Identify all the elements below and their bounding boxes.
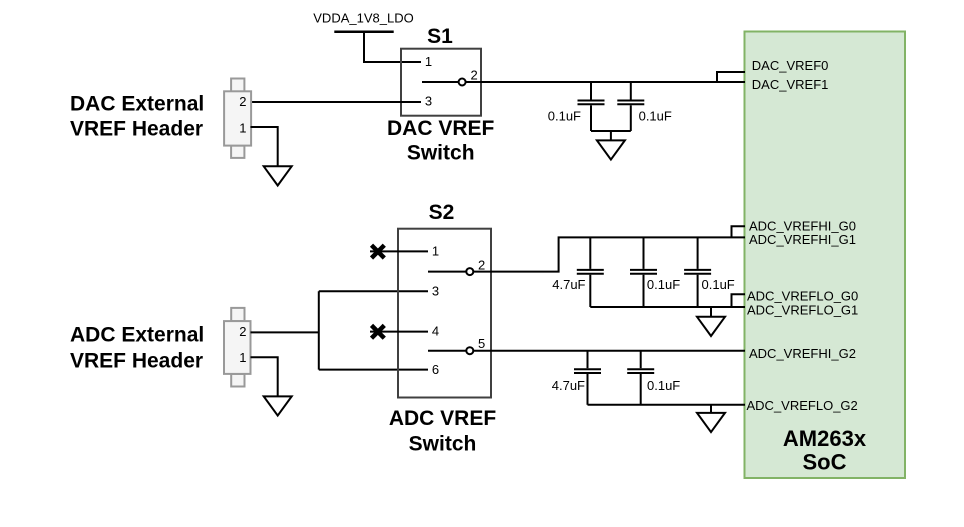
svg-text:1: 1 xyxy=(239,350,246,365)
value label C7 0.1uF xyxy=(647,378,680,393)
ground (C1 C2) xyxy=(597,140,625,159)
net label VDDA_1V8_LDO xyxy=(313,10,413,25)
svg-text:4.7uF: 4.7uF xyxy=(552,277,585,292)
svg-text:Switch: Switch xyxy=(407,142,475,165)
label S2 xyxy=(429,201,455,224)
svg-text:VREF Header: VREF Header xyxy=(70,349,203,372)
svg-text:0.1uF: 0.1uF xyxy=(548,109,581,124)
SoC block AM263x xyxy=(745,32,906,479)
svg-text:Switch: Switch xyxy=(409,432,477,455)
wire ADC_VREFLO rail xyxy=(590,306,745,308)
svg-text:1: 1 xyxy=(239,121,246,136)
svg-text:2: 2 xyxy=(239,94,246,109)
capacitor C7 0.1uF xyxy=(627,351,654,405)
capacitor C4 0.1uF xyxy=(630,237,657,307)
svg-text:2: 2 xyxy=(478,257,485,272)
S2 pin 5 number xyxy=(478,336,485,351)
ground (ADC header) xyxy=(264,396,292,415)
label ADC VREF Switch xyxy=(389,407,497,455)
svg-text:ADC_VREFLO_G0: ADC_VREFLO_G0 xyxy=(747,289,858,304)
svg-text:0.1uF: 0.1uF xyxy=(639,109,672,124)
svg-text:3: 3 xyxy=(432,284,439,299)
svg-text:5: 5 xyxy=(478,336,485,351)
svg-text:2: 2 xyxy=(239,324,246,339)
svg-text:ADC_VREFHI_G2: ADC_VREFHI_G2 xyxy=(749,346,856,361)
ADC header pin 1 number xyxy=(239,350,246,365)
value label C3 4.7uF xyxy=(552,277,585,292)
wire DAC header pin 2 to S1 pin 3 xyxy=(251,101,422,103)
label ADC External VREF Header xyxy=(70,324,204,373)
ADC header pin 2 number xyxy=(239,324,246,339)
svg-text:ADC_VREFLO_G1: ADC_VREFLO_G1 xyxy=(747,303,858,318)
DAC header pin 2 number xyxy=(239,94,246,109)
capacitor C2 0.1uF xyxy=(617,82,644,131)
svg-text:4: 4 xyxy=(432,324,439,339)
pin label ADC_VREFLO_G0 xyxy=(747,289,858,304)
label DAC VREF Switch xyxy=(387,117,495,165)
DAC header pin 1 number xyxy=(239,121,246,136)
S1 pin 1 number xyxy=(425,54,432,69)
value label C2 0.1uF xyxy=(639,109,672,124)
pin label ADC_VREFLO_G2 xyxy=(747,398,858,413)
wire jog to ADC_VREFHI_G0 xyxy=(732,226,746,237)
no-connect X on S2 pin 1 xyxy=(372,245,385,258)
svg-text:DAC_VREF1: DAC_VREF1 xyxy=(752,77,829,92)
pin label ADC_VREFHI_G0 xyxy=(749,219,856,234)
switch S2 xyxy=(398,229,491,398)
value label C6 4.7uF xyxy=(552,378,585,393)
svg-text:1: 1 xyxy=(432,244,439,259)
wire bus (S2 pin3 to pin6) xyxy=(318,291,320,369)
S2 pin 5 switch contact wire xyxy=(428,347,745,354)
no-connect X on S2 pin 4 xyxy=(372,325,385,338)
S2 pin 3 number xyxy=(432,284,439,299)
S2 pin 1 number xyxy=(432,244,439,259)
svg-text:DAC VREF: DAC VREF xyxy=(387,117,495,140)
wire jog to ADC_VREFLO_G0 xyxy=(732,294,746,307)
connector J2 ADC External VREF Header xyxy=(224,308,251,387)
S2 pin 2 switch contact wire xyxy=(428,237,745,275)
wire bus to S2 pin 3 xyxy=(319,290,428,292)
wire DAC header pin 1 to ground xyxy=(251,127,278,166)
switch S1 xyxy=(401,49,481,116)
wire ADC_VREFLO_G2 rail xyxy=(588,404,746,406)
connector J1 DAC External VREF Header xyxy=(224,79,251,158)
wire ground stem (upper group) xyxy=(710,307,712,317)
label AM263x SoC xyxy=(783,426,867,475)
svg-text:ADC VREF: ADC VREF xyxy=(389,407,497,430)
S2 pin 6 number xyxy=(432,362,439,377)
value label C5 0.1uF xyxy=(702,277,735,292)
capacitor C5 0.1uF xyxy=(684,237,711,307)
wire ground stem (lower group) xyxy=(710,405,712,413)
svg-text:VDDA_1V8_LDO: VDDA_1V8_LDO xyxy=(313,10,413,25)
wire ADC header pin 1 to ground xyxy=(251,357,278,396)
S1 pin 2 number xyxy=(471,67,478,82)
svg-text:S2: S2 xyxy=(429,201,455,224)
wire VDDA_1V8_LDO to S1 pin 1 xyxy=(364,32,421,62)
ground (DAC header) xyxy=(264,166,292,185)
S2 pin 2 number xyxy=(478,257,485,272)
S2 pin 4 stub wire xyxy=(370,331,428,333)
label S1 xyxy=(427,25,453,48)
svg-text:ADC External: ADC External xyxy=(70,324,204,347)
svg-text:AM263x: AM263x xyxy=(783,426,867,451)
wire ADC header pin 2 to bus xyxy=(251,331,319,333)
pin label DAC_VREF0 xyxy=(752,58,829,73)
S2 pin 4 number xyxy=(432,324,439,339)
value label C1 0.1uF xyxy=(548,109,581,124)
svg-text:4.7uF: 4.7uF xyxy=(552,378,585,393)
pin label DAC_VREF1 xyxy=(752,77,829,92)
svg-text:0.1uF: 0.1uF xyxy=(647,277,680,292)
label DAC External VREF Header xyxy=(70,93,204,141)
capacitor C6 4.7uF xyxy=(574,351,601,405)
svg-text:2: 2 xyxy=(471,67,478,82)
S1 pin 3 number xyxy=(425,94,432,109)
pin label ADC_VREFHI_G1 xyxy=(749,232,856,247)
value label C4 0.1uF xyxy=(647,277,680,292)
svg-text:0.1uF: 0.1uF xyxy=(647,378,680,393)
svg-text:ADC_VREFHI_G1: ADC_VREFHI_G1 xyxy=(749,232,856,247)
capacitor C3 4.7uF xyxy=(577,237,604,307)
svg-text:DAC_VREF0: DAC_VREF0 xyxy=(752,58,829,73)
svg-text:SoC: SoC xyxy=(803,450,847,475)
svg-text:VREF Header: VREF Header xyxy=(70,117,203,140)
capacitor C1 0.1uF xyxy=(578,82,605,131)
svg-text:1: 1 xyxy=(425,54,432,69)
pin label ADC_VREFLO_G1 xyxy=(747,303,858,318)
wire bus to S2 pin 6 xyxy=(319,369,428,371)
pin label ADC_VREFHI_G2 xyxy=(749,346,856,361)
ground (C3 C4 C5) xyxy=(697,317,725,336)
svg-text:ADC_VREFLO_G2: ADC_VREFLO_G2 xyxy=(747,398,858,413)
svg-text:0.1uF: 0.1uF xyxy=(702,277,735,292)
power rail symbol VDDA_1V8_LDO xyxy=(334,30,393,33)
wire C1 C2 ground rail xyxy=(591,131,631,140)
S2 pin 1 stub wire xyxy=(370,250,428,252)
svg-text:DAC External: DAC External xyxy=(70,93,204,116)
svg-text:3: 3 xyxy=(425,94,432,109)
svg-text:S1: S1 xyxy=(427,25,453,48)
svg-text:6: 6 xyxy=(432,362,439,377)
S1 pin 2 switch contact wire xyxy=(422,79,745,86)
wire jog to DAC_VREF0 xyxy=(717,72,745,82)
ground (C6 C7) xyxy=(697,413,725,432)
